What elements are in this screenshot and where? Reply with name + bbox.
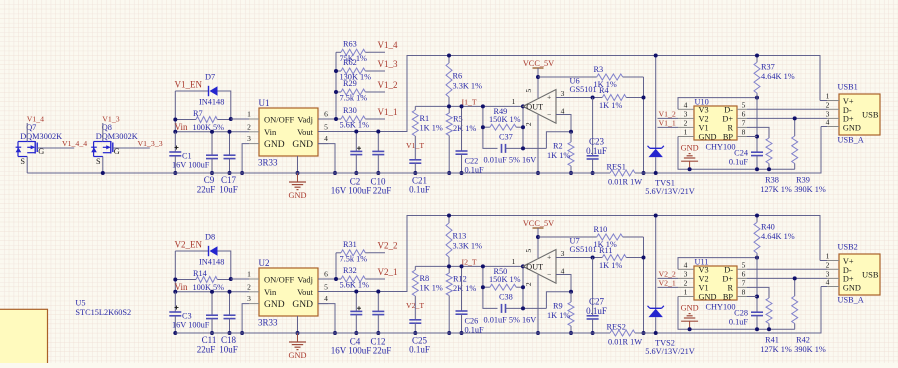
junction: [334, 277, 338, 281]
wire opamp pin2 to ground: [537, 275, 539, 333]
svg-text:C24: C24: [734, 149, 749, 158]
wire usb GND: [821, 126, 827, 128]
wire regulator bottom ground: [297, 316, 299, 333]
svg-text:V2_2: V2_2: [378, 241, 398, 251]
svg-text:1: 1: [826, 92, 830, 101]
svg-text:3: 3: [684, 269, 688, 278]
junction: [240, 331, 244, 335]
junction: [481, 264, 485, 268]
wire diode cathode: [218, 251, 231, 279]
USB controller U11: [694, 266, 737, 300]
svg-text:R12: R12: [453, 275, 467, 284]
svg-text:GND: GND: [843, 283, 861, 292]
wire fb to sense: [546, 292, 571, 309]
svg-text:D-: D-: [843, 266, 852, 275]
svg-text:R31: R31: [343, 240, 357, 249]
svg-text:R62: R62: [343, 58, 357, 67]
wire pin4 down: [318, 304, 335, 333]
svg-text:R: R: [727, 123, 733, 132]
resistor R4: [556, 86, 644, 110]
wire BP: [747, 136, 757, 138]
svg-text:U2: U2: [259, 258, 270, 268]
svg-text:3: 3: [684, 109, 688, 118]
svg-text:GND: GND: [292, 140, 313, 150]
svg-text:3R33: 3R33: [258, 158, 278, 168]
wire V2 stub: [658, 277, 679, 279]
junction: [229, 117, 233, 121]
junction: [591, 331, 595, 335]
junction: [755, 54, 759, 58]
svg-text:Q8: Q8: [102, 123, 112, 132]
capacitor C38: [484, 293, 547, 325]
USB connector USB2: [839, 254, 880, 295]
svg-text:R41: R41: [765, 336, 779, 345]
wire opamp pin2 to ground: [537, 115, 539, 173]
resistor R9: [547, 292, 574, 333]
junction: [521, 285, 525, 289]
junction: [569, 130, 573, 134]
wire Vin row: [175, 131, 249, 133]
svg-text:8: 8: [742, 128, 746, 137]
wire fb right: [522, 266, 524, 308]
wire fb left: [483, 266, 498, 308]
capacitor C2 (polarized): [331, 132, 372, 196]
svg-text:GND: GND: [292, 300, 313, 310]
junction: [755, 214, 759, 218]
svg-text:5: 5: [524, 89, 533, 93]
svg-text:D8: D8: [205, 233, 215, 242]
svg-text:R11: R11: [599, 246, 613, 255]
svg-text:V2: V2: [699, 114, 709, 123]
svg-text:2: 2: [247, 122, 251, 131]
wire Vin row: [175, 291, 249, 293]
svg-text:V1_2: V1_2: [659, 110, 676, 119]
svg-text:16V 100uF: 16V 100uF: [331, 186, 372, 196]
wire ground rail: [27, 172, 610, 174]
capacitor C26: [456, 266, 468, 333]
junction: [642, 96, 646, 100]
wire tvs anode: [655, 157, 657, 173]
ground: [289, 173, 307, 200]
svg-text:0.01uF 5% 16V: 0.01uF 5% 16V: [484, 316, 537, 325]
wire V1 stub: [658, 286, 679, 288]
svg-text:GND: GND: [289, 351, 307, 360]
svg-text:3: 3: [561, 249, 565, 258]
wire D- line: [747, 268, 827, 270]
resistor R50: [483, 267, 523, 290]
transistor Q7: [16, 114, 63, 173]
wire gate: [37, 147, 74, 149]
resistor R31: [336, 240, 369, 264]
usb pin labels: [843, 97, 879, 132]
svg-text:3.3K 1%: 3.3K 1%: [453, 242, 483, 251]
junction: [591, 256, 595, 260]
junction: [460, 331, 464, 335]
wire diode cathode: [218, 91, 231, 119]
resistor R10: [538, 225, 644, 249]
svg-text:1: 1: [826, 252, 830, 261]
wire net stub: [369, 51, 386, 53]
junction: [521, 104, 525, 108]
capacitor C22: [456, 106, 468, 173]
wire tvs vertical: [655, 56, 657, 149]
svg-text:3: 3: [247, 134, 251, 143]
junction: [447, 264, 451, 268]
wire Vout row: [318, 56, 820, 132]
junction: [654, 214, 658, 218]
svg-text:CHY100: CHY100: [706, 143, 736, 152]
resistor R3: [538, 65, 644, 89]
svg-text:16V 100uF: 16V 100uF: [172, 321, 210, 330]
svg-text:VCC_5V: VCC_5V: [523, 59, 554, 68]
svg-text:4.64K 1%: 4.64K 1%: [761, 72, 795, 81]
svg-text:V1_4_4: V1_4_4: [62, 139, 87, 148]
svg-text:C18: C18: [221, 335, 237, 345]
svg-text:D+: D+: [843, 275, 854, 284]
svg-text:6: 6: [324, 110, 328, 119]
regulator pin labels: [264, 274, 314, 310]
junction: [591, 96, 595, 100]
junction: [376, 290, 380, 294]
svg-text:R37: R37: [761, 63, 775, 72]
svg-text:Q7: Q7: [26, 123, 36, 132]
junction: [642, 331, 646, 335]
svg-text:U5: U5: [75, 299, 85, 308]
svg-text:4: 4: [324, 294, 328, 303]
svg-text:C9: C9: [204, 175, 215, 185]
svg-text:5.6K 1%: 5.6K 1%: [340, 281, 370, 290]
svg-text:3: 3: [561, 89, 565, 98]
capacitor C28: [729, 309, 763, 330]
svg-text:R14: R14: [193, 269, 208, 278]
wire D+ line: [747, 277, 827, 279]
wire ground rail: [175, 332, 610, 334]
junction: [460, 264, 464, 268]
junction: [521, 125, 525, 129]
svg-text:Vin: Vin: [264, 127, 277, 137]
junction: [173, 171, 177, 175]
svg-text:0.1uF: 0.1uF: [409, 345, 430, 355]
svg-text:R29: R29: [343, 79, 357, 88]
svg-text:0.1uF: 0.1uF: [586, 146, 607, 156]
resistor R29: [336, 79, 369, 103]
wire net stub: [369, 118, 386, 120]
wire vcc stem: [537, 228, 539, 258]
svg-text:R9: R9: [553, 302, 563, 311]
svg-text:4: 4: [324, 134, 328, 143]
capacitor C12: [370, 292, 391, 356]
resistor R38: [766, 127, 772, 169]
junction: [240, 171, 244, 175]
svg-text:5: 5: [742, 260, 746, 269]
svg-text:0.01R 1W: 0.01R 1W: [608, 337, 642, 346]
wire net stub: [369, 278, 386, 280]
junction: [447, 54, 451, 58]
junction: [755, 96, 759, 100]
junction: [354, 331, 358, 335]
wire pin3 to ground: [242, 144, 249, 173]
svg-text:5.6K 1%: 5.6K 1%: [340, 121, 370, 130]
svg-text:0.1uF: 0.1uF: [409, 185, 430, 195]
wire usb V+: [820, 260, 827, 262]
svg-text:4: 4: [684, 260, 688, 269]
junction: [210, 290, 214, 294]
wire D- line: [747, 108, 827, 110]
svg-text:5: 5: [524, 249, 533, 253]
resistor R13: [446, 216, 482, 267]
svg-text:I2_T: I2_T: [462, 258, 477, 267]
svg-text:C22: C22: [465, 157, 479, 166]
junction: [413, 171, 417, 175]
svg-text:V1_3_3: V1_3_3: [138, 139, 163, 148]
controller pins: [678, 260, 747, 296]
svg-text:7.5k 1%: 7.5k 1%: [340, 94, 368, 103]
junction: [536, 171, 540, 175]
diode D7: [199, 73, 224, 107]
svg-text:127K 1%: 127K 1%: [760, 345, 792, 354]
svg-text:1: 1: [684, 288, 688, 297]
wire Vadj: [318, 278, 341, 280]
svg-text:D+: D+: [843, 115, 854, 124]
svg-text:0.1uF: 0.1uF: [586, 306, 607, 316]
capacitor C18: [219, 292, 238, 355]
svg-text:R3: R3: [594, 65, 604, 74]
junction: [447, 331, 451, 335]
svg-text:1K 1%: 1K 1%: [547, 151, 570, 160]
svg-text:2: 2: [524, 122, 533, 126]
junction: [767, 167, 771, 171]
svg-text:V2_1: V2_1: [659, 279, 676, 288]
wire V2 stub: [658, 117, 679, 119]
svg-text:1: 1: [684, 128, 688, 137]
junction: [755, 295, 759, 299]
capacitor C11: [197, 292, 218, 355]
junction: [642, 256, 646, 260]
wire R37 node down: [756, 258, 758, 313]
svg-text:+: +: [547, 253, 551, 262]
capacitor C3 (polarized): [169, 292, 181, 333]
junction: [447, 104, 451, 108]
svg-text:V1_3: V1_3: [378, 59, 398, 69]
junction: [481, 104, 485, 108]
svg-text:RES1: RES1: [607, 162, 626, 171]
svg-text:150K 1%: 150K 1%: [489, 115, 521, 124]
resistor R7: [175, 109, 231, 132]
svg-text:0.1uF: 0.1uF: [729, 318, 749, 327]
svg-text:USB2: USB2: [838, 242, 858, 251]
svg-text:V+: V+: [843, 97, 854, 106]
junction: [354, 290, 358, 294]
transistor Q8: [91, 114, 138, 173]
junction: [536, 75, 540, 79]
capacitor C37: [484, 133, 547, 165]
svg-text:D-: D-: [843, 106, 852, 115]
svg-text:R4: R4: [599, 86, 610, 95]
svg-text:R32: R32: [343, 266, 357, 275]
op-amp U6 GS5101: [512, 77, 597, 127]
junction: [173, 278, 177, 282]
svg-text:S: S: [96, 157, 101, 166]
svg-text:2K 1%: 2K 1%: [453, 284, 476, 293]
svg-text:C37: C37: [499, 133, 513, 142]
wire regulator bottom ground: [297, 156, 299, 173]
capacitor C23: [586, 98, 607, 174]
ground (controller): [681, 144, 699, 170]
svg-text:U1: U1: [259, 98, 270, 108]
wire V3 loop: [678, 98, 757, 110]
svg-text:V3: V3: [699, 265, 709, 274]
regulator U2: [259, 268, 318, 316]
svg-text:Vadj: Vadj: [297, 114, 313, 124]
junction: [460, 171, 464, 175]
svg-text:D7: D7: [205, 73, 215, 82]
svg-text:2: 2: [684, 118, 688, 127]
svg-text:R: R: [727, 283, 733, 292]
svg-text:8: 8: [742, 288, 746, 297]
junction: [447, 214, 451, 218]
svg-text:C1: C1: [182, 152, 192, 161]
wire net stub: [369, 70, 386, 72]
capacitor C24: [729, 149, 763, 170]
svg-text:C38: C38: [499, 293, 513, 302]
svg-text:Vout: Vout: [297, 127, 314, 137]
svg-text:6: 6: [324, 270, 328, 279]
svg-text:2K 1%: 2K 1%: [453, 124, 476, 133]
wire R3-R4 right: [643, 237, 645, 333]
svg-text:OUT: OUT: [526, 262, 543, 271]
wire R pin: [747, 127, 769, 137]
svg-text:BP: BP: [723, 132, 734, 141]
usb pin labels: [843, 257, 879, 292]
USB connector USB1: [839, 94, 880, 135]
svg-text:4: 4: [826, 278, 830, 287]
TVS diode TVS1: [645, 146, 695, 196]
svg-text:C26: C26: [465, 317, 479, 326]
svg-text:R30: R30: [343, 106, 357, 115]
junction: [654, 331, 658, 335]
svg-text:1: 1: [512, 257, 516, 266]
resistor R32: [336, 266, 369, 290]
svg-text:+: +: [547, 93, 551, 102]
TVS diode TVS2: [645, 306, 695, 356]
resistor R37: [754, 56, 795, 98]
svg-text:V2_2: V2_2: [659, 270, 676, 279]
svg-text:2: 2: [826, 101, 830, 110]
junction: [228, 290, 232, 294]
wire fb left: [483, 106, 498, 148]
svg-text:100K 5%: 100K 5%: [193, 283, 225, 292]
resistor R1: [412, 106, 443, 144]
svg-text:0.1uF: 0.1uF: [729, 158, 749, 167]
svg-text:5: 5: [324, 122, 328, 131]
capacitor C27: [586, 258, 607, 334]
svg-text:Vin: Vin: [264, 287, 277, 297]
wire node line: [415, 265, 523, 267]
wire tvs anode: [655, 317, 657, 333]
svg-text:VCC_5V: VCC_5V: [523, 219, 554, 228]
wire node line: [415, 105, 523, 107]
svg-text:R13: R13: [453, 232, 467, 241]
svg-text:IN4148: IN4148: [199, 98, 224, 107]
svg-text:RES2: RES2: [607, 322, 626, 331]
wire fb right: [522, 106, 524, 148]
wire ground rail right: [635, 127, 821, 174]
junction: [688, 327, 692, 331]
svg-text:C11: C11: [202, 335, 217, 345]
junction: [793, 276, 797, 280]
wire net stub: [369, 252, 386, 254]
wire R pin: [747, 287, 769, 297]
junction: [228, 331, 232, 335]
svg-text:V2_EN: V2_EN: [175, 240, 203, 250]
resistor R30: [336, 106, 369, 130]
junction: [210, 130, 214, 134]
svg-text:−: −: [547, 110, 551, 119]
resistor R5: [446, 106, 476, 173]
junction: [334, 69, 338, 73]
junction: [793, 116, 797, 120]
svg-text:3: 3: [247, 294, 251, 303]
svg-text:R7: R7: [193, 109, 203, 118]
resistor R63: [336, 39, 369, 63]
svg-text:5.6V/13V/21V: 5.6V/13V/21V: [645, 187, 695, 196]
resistor R6: [446, 56, 482, 107]
junction: [376, 171, 380, 175]
resistor R40: [754, 216, 795, 258]
wire usb V+: [820, 100, 827, 102]
usb pins: [826, 252, 839, 287]
svg-text:GND: GND: [699, 132, 717, 141]
junction: [376, 331, 380, 335]
junction: [536, 331, 540, 335]
svg-text:7.5k 1%: 7.5k 1%: [340, 254, 368, 263]
junction: [334, 117, 338, 121]
svg-text:22uF: 22uF: [373, 346, 392, 356]
ground: [289, 333, 307, 360]
wire left vertical: [174, 251, 176, 292]
svg-text:10uF: 10uF: [219, 185, 238, 195]
wire net stub: [369, 91, 386, 93]
junction: [767, 327, 771, 331]
svg-text:V2: V2: [699, 274, 709, 283]
svg-text:S: S: [20, 157, 25, 166]
svg-text:R6: R6: [453, 72, 463, 81]
junction: [688, 167, 692, 171]
junction: [755, 256, 759, 260]
svg-text:V3: V3: [699, 105, 709, 114]
svg-text:5.6V/13V/21V: 5.6V/13V/21V: [645, 347, 695, 356]
junction: [755, 327, 759, 331]
junction: [210, 171, 214, 175]
svg-text:390K 1%: 390K 1%: [794, 345, 826, 354]
svg-text:4: 4: [561, 266, 565, 275]
capacitor C25: [409, 304, 430, 355]
svg-text:CHY100: CHY100: [706, 303, 736, 312]
junction: [210, 331, 214, 335]
resistor R39: [792, 118, 798, 169]
ground (controller): [681, 304, 699, 330]
svg-text:GND: GND: [699, 292, 717, 301]
svg-text:USB_A: USB_A: [838, 135, 864, 144]
wire D+ line: [747, 117, 827, 119]
resistor R2: [547, 132, 574, 173]
junction: [354, 130, 358, 134]
svg-text:6: 6: [742, 109, 746, 118]
wire pin3 to ground: [242, 304, 249, 333]
junction: [654, 54, 658, 58]
svg-text:R2: R2: [553, 142, 563, 151]
svg-text:USB: USB: [862, 110, 879, 120]
